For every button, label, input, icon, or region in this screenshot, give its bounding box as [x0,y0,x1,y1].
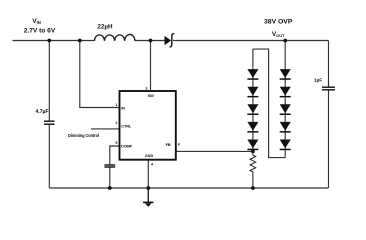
junction dot: sense resistor / ground rail [251,186,255,190]
svg-text:1: 1 [115,103,117,107]
svg-text:38V OVP: 38V OVP [264,18,293,25]
junction dot: VIN / IN branch [78,39,82,43]
wire: FB pin 6 to LED cathode node [176,150,253,152]
schottky diode D1 [165,34,175,47]
LED B2 [280,87,291,96]
IC U1 [120,91,176,160]
output capacitor 1uF [322,87,335,90]
LED B3 [280,104,291,113]
svg-text:2: 2 [115,121,117,125]
inductor L1 22uH [94,34,134,40]
junction dot: comp cap / ground rail [108,186,112,190]
wire: output capacitor to ground rail [328,90,330,188]
svg-text:COMP: COMP [121,144,133,149]
svg-text:GND: GND [145,154,154,158]
wire: left LED string vertical [252,49,254,151]
LED A5 [247,140,258,149]
LED B1 [280,69,291,78]
svg-text:22µH: 22µH [97,24,113,31]
svg-text:6: 6 [178,143,180,147]
junction dot: GND pin / ground rail [146,186,150,190]
wire: top hook joining LED strings [253,49,285,158]
wire: dimming control to CTRL pin 2 [91,128,120,130]
junction dot: VIN / input cap [47,39,51,43]
wire: VIN junction down to input capacitor [48,41,50,121]
compensation capacitor [104,165,115,167]
wire: right LED string vertical [284,41,286,158]
LED string B (right, 5 LEDs) [280,69,291,150]
wire: compensation capacitor to ground rail [109,167,111,188]
wire: SW node down to SW pin 3 [150,41,152,92]
wire: inductor to SW node [135,40,165,42]
svg-text:3: 3 [145,87,147,91]
svg-text:5: 5 [115,141,117,145]
svg-text:IN: IN [121,105,125,110]
LED A3 [247,104,258,113]
LED A4 [247,122,258,131]
junction dot: SW node [149,39,153,43]
wire: diode cathode to VOUT rail [173,40,329,42]
wire: GND pin 4 to ground rail [147,160,149,188]
wire: VIN branch down to IN pin [80,41,120,108]
LED B4 [280,122,291,131]
svg-text:2.7V to 6V: 2.7V to 6V [24,27,56,34]
input capacitor 4.7uF [44,121,54,124]
wire: ground rail [49,187,328,189]
svg-text:1µF: 1µF [314,78,322,84]
svg-text:FB: FB [166,142,171,147]
svg-text:Dimming Control: Dimming Control [68,133,99,138]
wire: VIN input rail [13,40,95,42]
svg-text:4.7µF: 4.7µF [36,109,49,115]
LED A2 [247,87,258,96]
LED string A (left, 5 LEDs) [247,69,258,150]
sense resistor [250,151,256,188]
junction dot: VOUT node [283,39,287,43]
wire: input capacitor to ground rail [48,125,50,188]
LED B5 [280,140,291,149]
LED A1 [247,69,258,78]
junction dot: FB / LED cathode [251,150,255,154]
svg-text:CTRL: CTRL [121,124,132,129]
ground symbol [143,188,154,207]
wire: VOUT rail down to output capacitor [328,41,330,87]
wire: COMP pin 5 to compensation capacitor [110,146,120,165]
svg-text:SW: SW [148,93,154,98]
